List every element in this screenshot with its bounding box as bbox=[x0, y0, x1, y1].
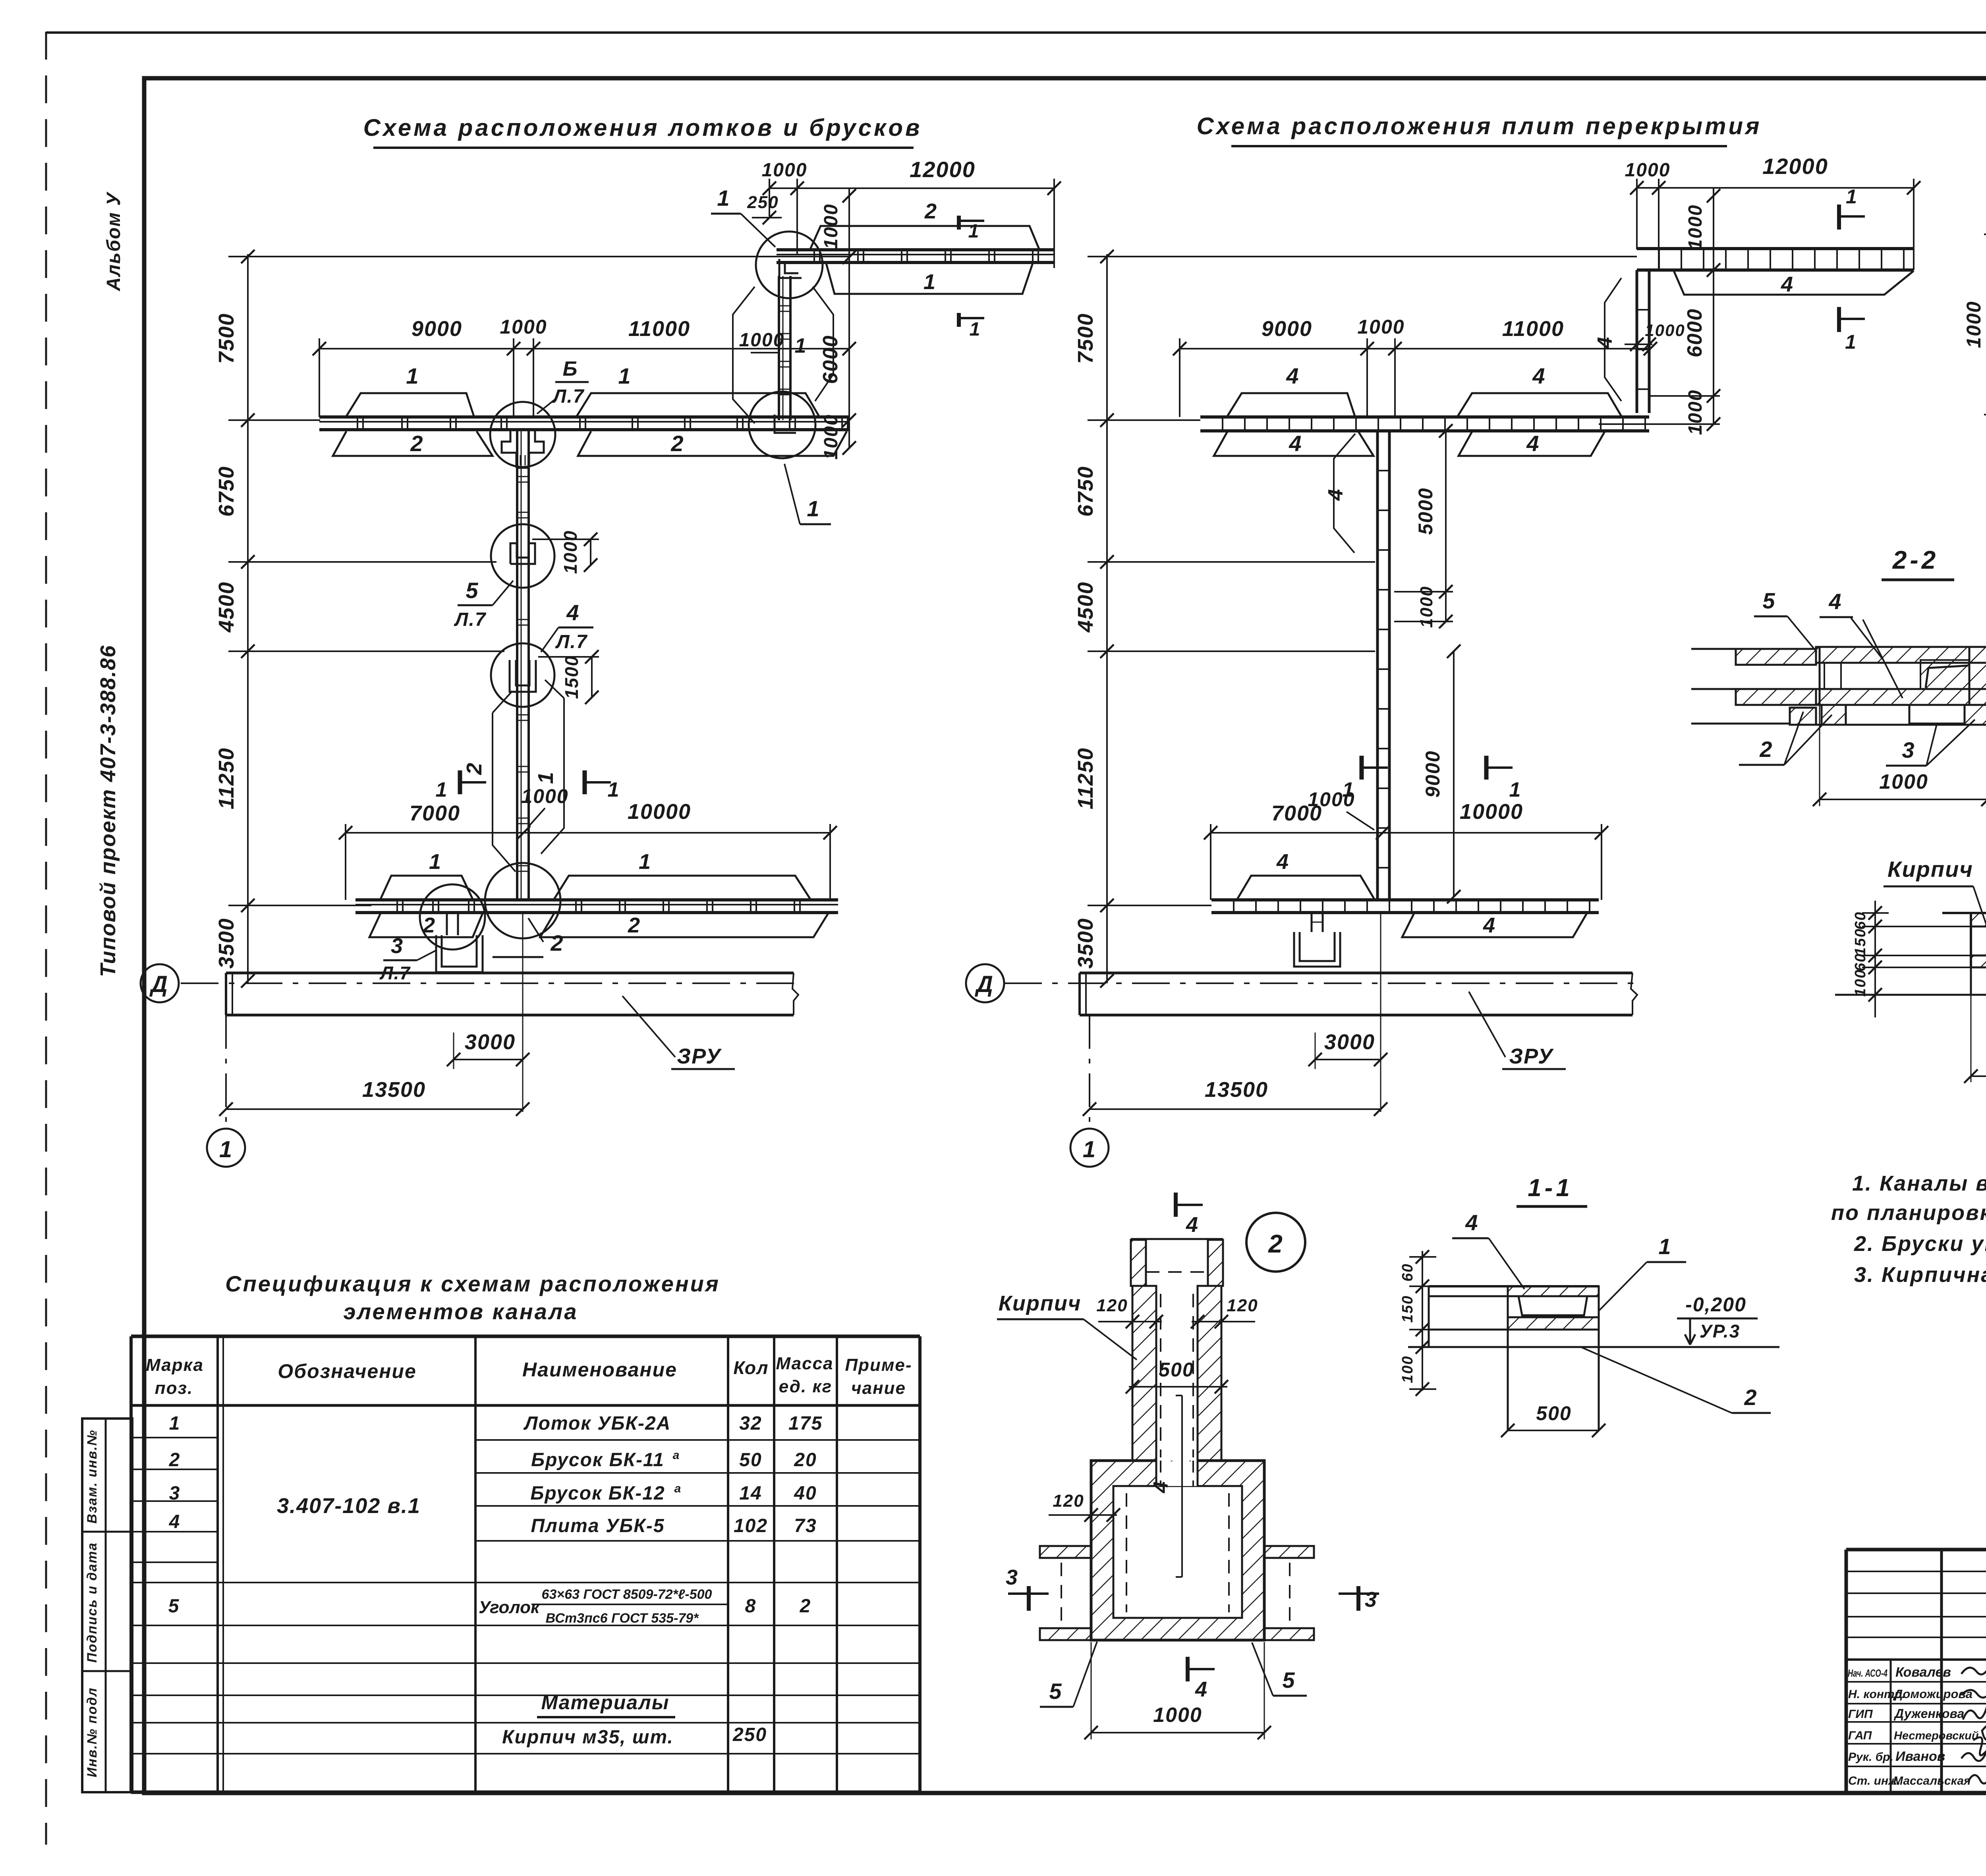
1-1 channel cup interior bbox=[1518, 1296, 1587, 1315]
1-1 top hatch band over channel bbox=[1508, 1286, 1599, 1296]
svg-text:4: 4 bbox=[1195, 1677, 1208, 1701]
svg-text:2: 2 bbox=[1744, 1385, 1757, 1410]
svg-text:3500: 3500 bbox=[214, 918, 238, 969]
svg-text:5: 5 bbox=[1762, 588, 1775, 613]
1-1 side verticals bbox=[1428, 1286, 1430, 1347]
svg-text:1: 1 bbox=[923, 270, 936, 294]
node2 dim 1000 bbox=[1091, 1642, 1092, 1739]
right corner dim 1000+12000 bbox=[1637, 187, 1914, 189]
right plan top dim row 9000-1000-11000 bbox=[1180, 348, 1650, 349]
page frame: outer sheet edge left (dashed) bbox=[45, 32, 47, 1845]
svg-text:13500: 13500 bbox=[1205, 1078, 1268, 1102]
svg-text:100: 100 bbox=[1852, 969, 1869, 996]
svg-text:1000: 1000 bbox=[560, 530, 581, 574]
svg-text:1: 1 bbox=[436, 778, 448, 801]
node2 block cavity outline bbox=[1113, 1486, 1242, 1618]
svg-text:1000: 1000 bbox=[1963, 301, 1985, 348]
dim 13500 bbox=[226, 1108, 523, 1110]
right plan: vertical dimension chain line bbox=[1106, 254, 1108, 983]
T-branch stub below strip bbox=[446, 913, 448, 935]
2-2 main band bottom hatch bbox=[1816, 689, 1986, 705]
left plan lower crossing circle bbox=[485, 863, 560, 938]
svg-text:Кирпич м35, шт.: Кирпич м35, шт. bbox=[502, 1727, 674, 1748]
svg-text:Массальская: Массальская bbox=[1893, 1774, 1971, 1787]
svg-text:Плита УБК-5: Плита УБК-5 bbox=[531, 1515, 665, 1536]
title block top edge bbox=[1846, 1548, 1986, 1552]
svg-text:Брусок БК-11: Брусок БК-11 bbox=[531, 1449, 665, 1471]
right plan trapezoid lower-left, pos 4 bbox=[1214, 432, 1374, 456]
4-4 left foundation block under bbox=[1970, 967, 1972, 995]
svg-text:4: 4 bbox=[566, 600, 580, 625]
node2 shaft left wall hatched bbox=[1132, 1286, 1156, 1461]
node1 dim 1000 left bbox=[1984, 234, 1986, 235]
label ZRU with leader bbox=[622, 996, 675, 1057]
svg-text:9000: 9000 bbox=[411, 317, 462, 341]
svg-text:2: 2 bbox=[462, 762, 486, 775]
building left edge bbox=[225, 973, 227, 1015]
svg-text:Кол: Кол bbox=[733, 1357, 769, 1378]
svg-text:Рук. бр.: Рук. бр. bbox=[1848, 1751, 1893, 1764]
right axis D circle bbox=[966, 964, 1004, 1002]
2-2 right end wall bbox=[1969, 647, 1986, 705]
svg-text:ВСт3пс6 ГОСТ 535-79*: ВСт3пс6 ГОСТ 535-79* bbox=[546, 1611, 699, 1626]
svg-text:1: 1 bbox=[1083, 1137, 1096, 1162]
dim 5000 on right of channel bbox=[1394, 591, 1453, 593]
node2 block outline bbox=[1091, 1461, 1264, 1640]
svg-text:1: 1 bbox=[534, 771, 558, 784]
hexagon callout around corner channel bbox=[733, 287, 755, 423]
svg-text:1000: 1000 bbox=[821, 204, 842, 249]
svg-text:60: 60 bbox=[1852, 911, 1869, 930]
right building band bottom bbox=[1080, 1014, 1632, 1017]
node2 section mark 3 right bbox=[1356, 1586, 1360, 1611]
corner node circle bottom bbox=[749, 392, 815, 458]
corner detail inside top circle bbox=[779, 259, 802, 278]
svg-text:120: 120 bbox=[1053, 1491, 1084, 1511]
vertical channel of corner part bbox=[778, 276, 780, 420]
svg-text:1: 1 bbox=[970, 319, 981, 340]
axis 1 dash-dot drop bbox=[225, 1015, 227, 1129]
svg-text:4: 4 bbox=[1324, 488, 1347, 501]
svg-text:2: 2 bbox=[169, 1449, 181, 1471]
svg-text:1: 1 bbox=[1846, 185, 1858, 208]
right plan vertical channel (brick ladder) bbox=[1376, 431, 1379, 900]
section mark 1 right bbox=[583, 770, 587, 794]
2-2 main band cavity verticals bbox=[1819, 647, 1821, 705]
svg-text:2. Бруски укладывать на упл: 2. Бруски укладывать на уплотненный грун… bbox=[1854, 1232, 1986, 1256]
svg-text:2: 2 bbox=[1268, 1229, 1283, 1258]
svg-text:50: 50 bbox=[739, 1449, 762, 1471]
svg-text:Типовой проект 407-3-388.86: Типовой проект 407-3-388.86 bbox=[96, 645, 120, 977]
svg-text:4: 4 bbox=[1149, 1481, 1173, 1494]
svg-text:-0,200: -0,200 bbox=[1685, 1293, 1746, 1316]
right plan bracket cup below strip bbox=[1294, 932, 1340, 967]
svg-text:Наименование: Наименование bbox=[522, 1359, 677, 1381]
svg-text:12000: 12000 bbox=[1762, 154, 1828, 179]
section mark 1 lower near corner bbox=[957, 313, 961, 327]
right label ZRU bbox=[1469, 992, 1505, 1057]
right lower trapezoid below-right, pos 4 bbox=[1402, 913, 1587, 937]
2-2 ground line bbox=[1816, 724, 1986, 726]
svg-text:Лоток УБК-2А: Лоток УБК-2А bbox=[524, 1413, 671, 1434]
svg-text:1: 1 bbox=[1845, 331, 1857, 353]
svg-text:а: а bbox=[673, 1449, 680, 1462]
svg-text:4: 4 bbox=[1483, 913, 1496, 937]
building axis D dash-dot line bbox=[181, 982, 798, 984]
svg-text:6000: 6000 bbox=[1683, 308, 1706, 357]
svg-text:3: 3 bbox=[169, 1483, 181, 1504]
svg-text:63×63 ГОСТ 8509-72*ℓ-500: 63×63 ГОСТ 8509-72*ℓ-500 bbox=[542, 1587, 712, 1602]
right plan trapezoid upper-right, pos 4 bbox=[1458, 393, 1621, 416]
svg-text:14: 14 bbox=[739, 1483, 762, 1504]
svg-text:Нестеровский: Нестеровский bbox=[1894, 1729, 1979, 1742]
2-2 left under-block bbox=[1790, 708, 1816, 725]
left plan trapezoid plate outline upper-left, pos 1 bbox=[346, 393, 474, 416]
svg-text:9000: 9000 bbox=[1262, 317, 1312, 341]
svg-text:4: 4 bbox=[1186, 1213, 1199, 1237]
node2 shaft hidden dashed edges bbox=[1160, 1294, 1161, 1457]
svg-text:1000: 1000 bbox=[1685, 205, 1706, 250]
spec table outer and columns bbox=[131, 1335, 920, 1338]
title block name row lines bbox=[1846, 1681, 1986, 1683]
node2 label 4 bracket bbox=[1181, 1395, 1183, 1577]
dim 1500 at node circle 2 bbox=[538, 656, 599, 658]
building ZRU band top line bbox=[226, 972, 794, 975]
node2 section mark 4 top bbox=[1174, 1193, 1178, 1217]
right plan trapezoid upper-left, pos 4 bbox=[1227, 393, 1355, 416]
svg-text:102: 102 bbox=[734, 1515, 768, 1536]
left plan upper channel strip (lotki row) bbox=[319, 415, 850, 419]
spec header bottom line bbox=[131, 1404, 920, 1407]
lower trapezoid upper-left, pos 1 bbox=[381, 876, 473, 899]
svg-text:1: 1 bbox=[406, 363, 419, 388]
svg-text:ГИП: ГИП bbox=[1848, 1708, 1873, 1721]
node2 right side channel bbox=[1264, 1545, 1314, 1547]
svg-text:2: 2 bbox=[670, 431, 684, 456]
svg-text:2-2: 2-2 bbox=[1892, 546, 1939, 574]
svg-text:1-1: 1-1 bbox=[1528, 1174, 1573, 1202]
svg-text:Материалы: Материалы bbox=[541, 1691, 670, 1714]
svg-text:3500: 3500 bbox=[1074, 918, 1097, 969]
dim 9000 lower right of channel bbox=[1453, 651, 1455, 897]
1-1 dim 500 bbox=[1508, 1430, 1599, 1431]
node2 dim 500 bbox=[1129, 1386, 1227, 1388]
trapezoid below top row, pos 1 bbox=[826, 263, 1033, 294]
svg-text:6750: 6750 bbox=[1074, 466, 1097, 517]
4-4 cavity joints bbox=[1970, 913, 1972, 967]
svg-text:7500: 7500 bbox=[214, 313, 238, 364]
svg-text:500: 500 bbox=[1536, 1402, 1571, 1424]
axis circle 1 bbox=[207, 1129, 245, 1167]
svg-text:1500: 1500 bbox=[561, 655, 582, 699]
svg-text:ГАП: ГАП bbox=[1848, 1729, 1872, 1742]
svg-text:2: 2 bbox=[550, 930, 564, 955]
svg-text:1: 1 bbox=[639, 850, 651, 874]
svg-text:4500: 4500 bbox=[214, 581, 238, 633]
right channel centerline extension bbox=[1380, 913, 1381, 1112]
left plan upper strip joint marks bbox=[357, 417, 358, 430]
svg-text:3000: 3000 bbox=[465, 1030, 516, 1054]
svg-text:5: 5 bbox=[1282, 1668, 1295, 1693]
svg-text:250: 250 bbox=[732, 1724, 767, 1745]
svg-text:Марка: Марка bbox=[146, 1355, 204, 1375]
top-right horizontal channel row bbox=[777, 248, 1054, 251]
svg-text:4: 4 bbox=[1526, 431, 1540, 456]
svg-text:5: 5 bbox=[466, 578, 479, 603]
svg-text:4: 4 bbox=[1594, 336, 1617, 349]
section mark 1 upper near corner bbox=[957, 216, 961, 230]
svg-text:5: 5 bbox=[1049, 1679, 1062, 1704]
right corner dim 1000 small bbox=[1625, 344, 1652, 345]
svg-text:1: 1 bbox=[219, 1137, 233, 1162]
svg-text:1000: 1000 bbox=[762, 160, 808, 181]
svg-text:7000: 7000 bbox=[410, 801, 460, 825]
svg-text:поз.: поз. bbox=[155, 1378, 193, 1398]
svg-text:2: 2 bbox=[1759, 737, 1773, 762]
right corner top plates row bbox=[1637, 247, 1914, 250]
svg-text:3000: 3000 bbox=[1324, 1030, 1375, 1054]
svg-text:а: а bbox=[674, 1482, 682, 1495]
right plan upper plates row bbox=[1200, 415, 1649, 419]
left plan top dim row 9000-1000-11000 bbox=[319, 348, 850, 349]
node2 top channel cap line bbox=[1131, 1238, 1223, 1240]
svg-text:4500: 4500 bbox=[1074, 581, 1097, 633]
node2 top channel side bars bbox=[1131, 1240, 1146, 1286]
svg-text:5: 5 bbox=[168, 1596, 180, 1617]
lower strip joint marks bbox=[396, 900, 398, 913]
node2 top channel hidden dashed bbox=[1146, 1271, 1208, 1273]
svg-text:Нач. АСО-4: Нач. АСО-4 bbox=[1848, 1667, 1887, 1679]
node2 shaft opening into block bbox=[1157, 1461, 1197, 1486]
svg-text:7000: 7000 bbox=[1271, 801, 1322, 825]
svg-text:2: 2 bbox=[800, 1596, 811, 1617]
svg-text:1: 1 bbox=[717, 185, 730, 210]
building right break mark bbox=[792, 973, 798, 1015]
left plan chain extension lines bbox=[228, 256, 850, 257]
left plan hexagonal callout around channel, pos 2 and 1 bbox=[493, 713, 516, 872]
dim 1000 at node circle bbox=[532, 538, 599, 540]
svg-text:Обозначение: Обозначение bbox=[278, 1360, 417, 1382]
trapezoid above top row, pos 2 bbox=[810, 226, 1039, 249]
node2 left side channel bbox=[1040, 1545, 1091, 1547]
right plan trapezoid lower-right, pos 4 bbox=[1459, 432, 1605, 456]
svg-text:2: 2 bbox=[410, 431, 423, 456]
svg-text:1000: 1000 bbox=[1357, 316, 1404, 338]
svg-text:Масса: Масса bbox=[776, 1354, 833, 1373]
svg-text:73: 73 bbox=[794, 1515, 817, 1536]
svg-text:11000: 11000 bbox=[628, 317, 690, 341]
svg-text:Уголок: Уголок bbox=[479, 1598, 541, 1617]
right building band top bbox=[1080, 972, 1632, 975]
building ZRU band bottom line bbox=[226, 1014, 794, 1017]
right axis circle 1 bbox=[1070, 1129, 1109, 1167]
svg-text:4: 4 bbox=[169, 1511, 181, 1532]
4-4 dim stack 60/150/60/100 bbox=[1874, 901, 1876, 1017]
left plan T-junction detail inside circle bbox=[502, 431, 516, 468]
lower trapezoid upper-right, pos 1 bbox=[554, 876, 810, 899]
svg-text:Подпись и дата: Подпись и дата bbox=[85, 1542, 100, 1663]
node2 block hatched ring bbox=[1091, 1461, 1264, 1640]
svg-text:4: 4 bbox=[1828, 589, 1842, 614]
right plan section mark 1 right bbox=[1484, 756, 1489, 780]
svg-text:9000: 9000 bbox=[1422, 750, 1444, 797]
svg-text:1: 1 bbox=[618, 363, 631, 388]
top row joint marks bbox=[813, 250, 815, 262]
2-2 under blocks bbox=[1822, 705, 1846, 725]
svg-text:11250: 11250 bbox=[1074, 747, 1097, 809]
svg-text:1000: 1000 bbox=[1417, 586, 1436, 628]
right axis 1 dash-dot drop bbox=[1089, 1015, 1090, 1129]
right plan dim row 7000/10000 bbox=[1211, 832, 1602, 834]
svg-text:1000: 1000 bbox=[1879, 770, 1928, 793]
svg-text:4: 4 bbox=[1286, 363, 1299, 388]
right lower trapezoid above-left, pos 4 bbox=[1237, 876, 1374, 899]
svg-text:8: 8 bbox=[745, 1596, 757, 1617]
right plan T-branch stub below strip bbox=[1311, 913, 1313, 932]
title block horizontals upper rows bbox=[1846, 1571, 1986, 1572]
4-4 band top line bbox=[1942, 912, 1986, 914]
svg-text:Б: Б bbox=[563, 357, 578, 380]
svg-text:чание: чание bbox=[851, 1378, 906, 1398]
right axis D dash-dot bbox=[1004, 982, 1634, 984]
svg-text:Спецификация к схемам распо: Спецификация к схемам расположения bbox=[225, 1271, 720, 1296]
svg-text:Приме-: Приме- bbox=[845, 1355, 912, 1375]
svg-text:13500: 13500 bbox=[362, 1078, 426, 1102]
right plan section mark 1 left bbox=[1360, 756, 1364, 780]
svg-text:элементов канала: элементов канала bbox=[343, 1299, 578, 1324]
svg-text:3. Кирпичная кладка на раст: 3. Кирпичная кладка на растворе м25 bbox=[1854, 1263, 1986, 1287]
svg-text:4: 4 bbox=[1781, 272, 1794, 296]
svg-text:Д: Д bbox=[974, 971, 994, 997]
lower trapezoid below-right, pos 2 bbox=[540, 913, 828, 937]
svg-text:1000: 1000 bbox=[1153, 1704, 1202, 1727]
svg-text:Инв.№ подл: Инв.№ подл bbox=[85, 1687, 100, 1777]
right corner vertical dim 1000/6000/1000 bbox=[1713, 188, 1714, 424]
svg-text:32: 32 bbox=[739, 1413, 762, 1434]
spec row lines marka col bbox=[131, 1437, 218, 1438]
2-2 dim 1000 bbox=[1819, 705, 1820, 806]
svg-text:Взам. инв.№: Взам. инв.№ bbox=[85, 1429, 100, 1523]
svg-text:Схема расположения плит пер: Схема расположения плит перекрытия bbox=[1197, 113, 1762, 139]
svg-text:Л.7: Л.7 bbox=[552, 386, 584, 407]
svg-text:12000: 12000 bbox=[910, 157, 976, 182]
2-2 main band top hatch bbox=[1816, 647, 1986, 663]
svg-text:УР.3: УР.3 bbox=[1700, 1321, 1740, 1341]
corner node circle top bbox=[756, 232, 823, 298]
left plan trapezoid upper-right, pos 1 bbox=[577, 393, 819, 416]
corner detail inside bottom circle bbox=[775, 415, 796, 433]
left plan node circle 2 on vertical channel (pos 4) bbox=[491, 643, 554, 707]
4-4 ground line bbox=[1835, 994, 1986, 996]
svg-text:1. Каналы выполнять после п: 1. Каналы выполнять после производства р… bbox=[1852, 1172, 1986, 1195]
1-1 mid line bbox=[1429, 1329, 1508, 1331]
left plan: vertical dimension chain line bbox=[247, 254, 249, 983]
1-1 ground line bbox=[1408, 1346, 1779, 1348]
spec row lines right part bbox=[475, 1439, 920, 1441]
node2 section mark 4 bottom bbox=[1186, 1657, 1190, 1681]
svg-text:1000: 1000 bbox=[521, 785, 568, 807]
1-1 band top line bbox=[1429, 1285, 1599, 1287]
svg-text:100: 100 bbox=[1399, 1355, 1416, 1383]
hexagon callout with rotated 4 bbox=[1334, 434, 1355, 553]
svg-text:1: 1 bbox=[1658, 1234, 1671, 1259]
svg-text:Брусок БК-12: Брусок БК-12 bbox=[530, 1483, 665, 1504]
right corner trapezoid below row, pos 4 bbox=[1674, 271, 1914, 295]
right corner hexagon callout bbox=[1605, 278, 1621, 401]
2-2 left adjoining hatch bands bbox=[1736, 649, 1816, 665]
svg-text:Ковалев: Ковалев bbox=[1895, 1665, 1951, 1680]
svg-text:ЗРУ: ЗРУ bbox=[1509, 1044, 1554, 1068]
svg-text:10000: 10000 bbox=[628, 800, 691, 824]
svg-text:1000: 1000 bbox=[1645, 321, 1685, 340]
1-1 inner line bbox=[1429, 1295, 1508, 1297]
svg-text:7500: 7500 bbox=[1074, 313, 1097, 364]
svg-text:20: 20 bbox=[794, 1449, 817, 1471]
left plan crossing node circle bbox=[490, 402, 555, 467]
svg-text:150: 150 bbox=[1852, 928, 1869, 955]
svg-text:Схема расположения лотков и: Схема расположения лотков и брусков bbox=[363, 114, 922, 141]
svg-text:175: 175 bbox=[788, 1413, 823, 1434]
svg-text:Кирпич: Кирпич bbox=[999, 1291, 1082, 1315]
svg-text:Л.7: Л.7 bbox=[555, 631, 587, 652]
section mark 1 upper right-plan bbox=[1837, 205, 1841, 230]
svg-text:4: 4 bbox=[1532, 363, 1546, 388]
4-4 bottom hatch band bbox=[1971, 955, 1986, 967]
svg-text:Кирпич: Кирпич bbox=[1887, 857, 1973, 882]
svg-text:120: 120 bbox=[1096, 1296, 1128, 1315]
spec full row lines bbox=[131, 1582, 920, 1583]
4-4 dims 1000 1000 bbox=[1971, 969, 1972, 1082]
left margin stamp strips bbox=[82, 1419, 132, 1792]
signature squiggles bbox=[1961, 1665, 1986, 1674]
svg-text:5000: 5000 bbox=[1414, 487, 1437, 535]
svg-text:500: 500 bbox=[1159, 1359, 1194, 1381]
section mark 1 left bbox=[458, 770, 462, 794]
right plan lower plates row bbox=[1211, 898, 1599, 901]
right building break mark bbox=[1631, 973, 1637, 1015]
svg-text:по планировке территории по: по планировке территории подстанции bbox=[1831, 1201, 1986, 1225]
1-1 dim stack 60/150/100 bbox=[1422, 1251, 1423, 1391]
channel centerline extension down bbox=[522, 913, 524, 1112]
svg-text:3: 3 bbox=[1365, 1588, 1377, 1612]
svg-text:250: 250 bbox=[747, 193, 779, 212]
svg-text:Дуженкова: Дуженкова bbox=[1893, 1706, 1964, 1721]
svg-text:1: 1 bbox=[169, 1413, 181, 1434]
left plan dim row 7000/10000 bbox=[346, 832, 830, 834]
svg-text:Иванов: Иванов bbox=[1895, 1749, 1945, 1764]
svg-text:4: 4 bbox=[1465, 1210, 1478, 1235]
svg-text:1: 1 bbox=[1509, 778, 1522, 801]
svg-text:1000: 1000 bbox=[500, 316, 547, 338]
svg-text:10000: 10000 bbox=[1460, 800, 1523, 824]
axis D circle bbox=[141, 964, 179, 1002]
dim 3000 bbox=[454, 1059, 523, 1060]
left plan lower channel strip bbox=[355, 898, 838, 901]
left plan vertical channel strip bbox=[516, 431, 518, 900]
svg-text:1: 1 bbox=[968, 221, 980, 242]
left plan node circle on vertical channel (pos 5) bbox=[491, 524, 554, 588]
svg-text:ЗРУ: ЗРУ bbox=[677, 1044, 722, 1068]
svg-text:4: 4 bbox=[1289, 431, 1302, 456]
svg-text:40: 40 bbox=[794, 1483, 817, 1504]
svg-text:3: 3 bbox=[1902, 737, 1915, 762]
2-2 left ground line bbox=[1691, 723, 1790, 725]
outer sheet edge top bbox=[46, 31, 1986, 34]
svg-text:11250: 11250 bbox=[214, 747, 238, 809]
svg-text:1: 1 bbox=[608, 778, 620, 801]
svg-text:2: 2 bbox=[628, 913, 641, 937]
svg-text:Л.7: Л.7 bbox=[454, 609, 486, 630]
